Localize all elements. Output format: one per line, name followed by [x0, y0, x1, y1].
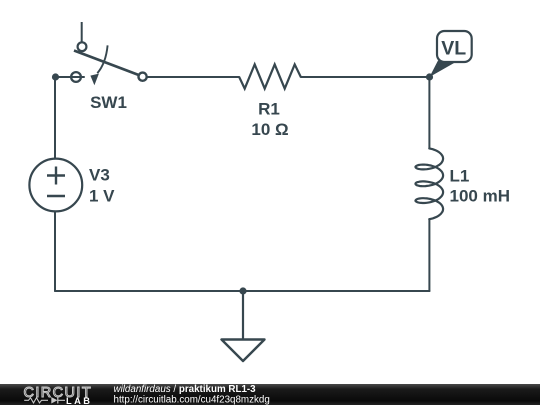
- voltage source V3 minus sign: [47, 195, 65, 197]
- footer logo diode: [51, 397, 57, 403]
- svg-text:LAB: LAB: [66, 396, 92, 405]
- wire left rail upper: [54, 77, 56, 158]
- wire right rail lower: [428, 219, 430, 291]
- ground stem wire: [242, 291, 244, 340]
- wire node A to switch: [55, 76, 84, 78]
- svg-text:10 Ω: 10 Ω: [251, 120, 288, 139]
- switch SW1 pivot terminal circle: [139, 73, 147, 81]
- switch SW1 left throw terminal circle: [71, 72, 81, 82]
- svg-text:1 V: 1 V: [89, 186, 115, 205]
- footer bar: [0, 384, 540, 405]
- svg-text:V3: V3: [89, 166, 110, 185]
- switch SW1 arrowhead: [90, 74, 99, 86]
- footer logo trace: [24, 398, 48, 403]
- svg-text:L1: L1: [450, 167, 470, 186]
- inductor L1 coil: [416, 148, 444, 219]
- svg-text:wildanfirdaus / praktikum RL1-: wildanfirdaus / praktikum RL1-3: [114, 384, 257, 395]
- resistor R1: [239, 64, 301, 88]
- node A junction dot: [52, 73, 59, 80]
- svg-text:VL: VL: [441, 38, 466, 60]
- ground triangle: [222, 340, 265, 362]
- voltage source V3 circle: [29, 159, 82, 212]
- svg-text:http://circuitlab.com/cu4f23q8: http://circuitlab.com/cu4f23q8mzkdg: [114, 394, 270, 405]
- svg-text:SW1: SW1: [90, 93, 127, 112]
- switch SW1 blade: [74, 51, 140, 76]
- switch SW1 action arrow arc: [97, 45, 107, 73]
- node VL flag box: [437, 31, 472, 62]
- switch SW1: [71, 22, 147, 82]
- switch SW1 top throw terminal circle: [78, 42, 87, 51]
- node VL junction dot: [426, 73, 433, 80]
- wire left rail lower: [54, 212, 56, 291]
- footer logo diode bar: [58, 397, 65, 403]
- ground junction dot: [239, 287, 246, 294]
- voltage source V3 plus sign: [47, 167, 65, 185]
- wire bottom rail: [55, 290, 430, 292]
- node VL flag pointer: [430, 61, 455, 78]
- svg-text:100 mH: 100 mH: [450, 187, 510, 206]
- switch SW1 top throw stub: [81, 22, 83, 42]
- wire switch to resistor: [147, 76, 239, 78]
- wire top rail right of resistor: [301, 76, 430, 78]
- wire right rail upper: [428, 77, 430, 149]
- svg-text:R1: R1: [258, 100, 280, 119]
